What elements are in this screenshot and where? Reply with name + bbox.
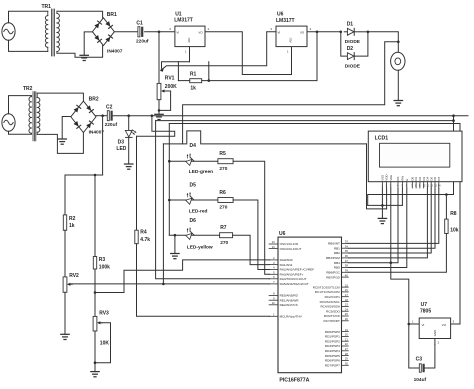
svg-text:LM317T: LM317T [174,18,193,24]
wire D2 branch [341,32,348,56]
resistor R4 body [135,230,138,244]
capacitor C1 [138,27,143,37]
potentiometer RV2 body [63,277,67,292]
svg-text:RV3: RV3 [99,310,109,316]
wire label-hop over D4 [163,131,366,144]
svg-text:RD5/PSP5: RD5/PSP5 [325,354,340,358]
resistor R5 body [218,159,233,164]
wire R7 to RA1 [233,235,270,264]
wire RV3 wiper loop [95,323,111,363]
svg-text:100k: 100k [99,265,110,271]
wire BR2 right to C2 [96,115,107,117]
svg-text:RC0/T1OSO/T1CKI: RC0/T1OSO/T1CKI [313,285,340,289]
junction D1/D2 right [367,31,370,34]
wire VEE node to U7 VI [391,263,409,324]
wire bus H2 [156,120,454,122]
ground (motor) [394,101,402,106]
junction VEE/RS row [390,261,393,264]
wire RS drop [348,188,398,263]
svg-text:OSC2/CLKOUT: OSC2/CLKOUT [280,247,302,251]
LED D6 (yellow) [183,227,196,240]
svg-text:U7: U7 [421,302,428,308]
svg-text:10K: 10K [100,341,110,347]
svg-text:ADJ: ADJ [288,37,292,43]
junction C2/D3 [127,114,130,117]
svg-text:RC6/TX/CK: RC6/TX/CK [324,314,341,318]
wire C2 branch run [137,116,175,137]
regulator U7 box [419,318,450,339]
wire BR1 right corner to C1 [114,31,137,33]
junction red row [168,199,171,202]
svg-text:D5: D5 [190,182,197,188]
svg-text:RD4/PSP4: RD4/PSP4 [325,349,340,353]
svg-text:TR1: TR1 [42,4,52,10]
wire motor rail to LED area [183,42,399,144]
wire y175 rail [65,174,103,176]
wire V2 loop to TR2 [9,96,32,114]
svg-text:RA5/AN4/SS/C2OUT: RA5/AN4/SS/C2OUT [280,282,309,286]
svg-text:RE1/AN6/WR: RE1/AN6/WR [280,298,300,302]
wire U7 GND stub [434,339,436,345]
svg-text:D6: D6 [190,218,197,224]
junction D1/D2 left [340,31,343,34]
wire VSS line left riser [368,195,454,206]
wire R2 line [64,175,66,215]
bridge rectifier BR1 [92,18,114,46]
svg-text:RB1: RB1 [334,246,340,250]
svg-text:GND: GND [433,330,437,336]
svg-text:RW: RW [401,176,405,181]
svg-text:220uf: 220uf [136,38,149,44]
svg-text:ADJ: ADJ [187,37,191,43]
wire U1 VO to U6 ADJ [205,32,292,75]
wire green row [169,160,218,162]
wire C3 to U7 GND [425,345,435,369]
wire R5 to RA3 [233,161,269,274]
junction H2 riser [452,119,455,122]
wire motor to ground [397,70,399,100]
junction motor rail [397,41,400,44]
svg-text:DIODE: DIODE [345,39,361,45]
ground (BR2) [58,139,66,144]
svg-text:104uf: 104uf [414,377,427,383]
wire LED cathode bus [168,124,170,236]
svg-text:RB2: RB2 [334,251,340,255]
svg-text:LED-red: LED-red [189,208,208,214]
svg-text:220uf: 220uf [105,122,118,128]
svg-text:RC4/SDI/SDA: RC4/SDI/SDA [320,305,340,309]
ground (LCD VSS) [378,218,386,223]
svg-text:RV1: RV1 [165,76,175,82]
svg-text:270: 270 [219,205,227,211]
junction RV3 bottom [94,361,97,364]
wire R4 to MCLR [137,244,270,317]
junction +V branch [151,114,154,117]
svg-text:D4: D4 [190,143,197,149]
svg-text:LED: LED [116,146,126,152]
junction green row [168,160,171,163]
wire U6 ADJ pin [291,47,293,75]
svg-text:RD6/PSP6: RD6/PSP6 [325,359,340,363]
svg-text:LCD1: LCD1 [375,136,389,142]
svg-text:1k: 1k [190,86,196,92]
svg-text:C1: C1 [136,20,143,26]
junction RV1 bottom [158,109,161,112]
svg-text:RD0/PSP0: RD0/PSP0 [325,330,340,334]
svg-text:VO: VO [442,323,447,327]
wire +V drop to R8 rail [453,116,455,195]
wire U6 VO to D1/D2 [307,31,341,33]
junction R8 top [445,193,448,196]
RV3 wiper arrow [97,321,103,324]
svg-text:LM317T: LM317T [276,18,295,24]
svg-text:E: E [405,179,409,181]
svg-text:D1: D1 [347,22,354,28]
svg-text:VO: VO [198,31,203,35]
svg-text:RC3/SCK/SCL: RC3/SCK/SCL [320,300,341,304]
svg-text:VI: VI [422,323,425,327]
svg-text:RS: RS [396,177,400,181]
junction U7 VI [408,323,411,326]
wire C1 to U1 VI [145,31,175,33]
wire D4 riser [348,188,427,258]
transformer TR1 [45,9,59,56]
wire U7 VI down to C3 [409,324,419,368]
svg-text:RA1/AN1: RA1/AN1 [280,263,293,267]
wire U7 VI lead [409,323,419,325]
svg-text:RD2/PSP2: RD2/PSP2 [325,339,340,343]
AC source V2 (sine) [2,114,15,132]
junction C1/U1/RV1 [158,31,161,34]
svg-text:RB5: RB5 [334,266,340,270]
wire R3 line top [94,175,96,258]
svg-text:RC1/T1OSI/CCP2: RC1/T1OSI/CCP2 [315,290,340,294]
wire VEE drop [390,188,392,263]
resistor R7 body [220,233,233,238]
svg-text:RD3/PSP3: RD3/PSP3 [325,344,340,348]
wire ADJ tap to R1 left [177,62,179,81]
wire BR2 left corner to ground [62,117,71,140]
resistor R3 body [93,257,96,270]
wire R6 to RA2 [233,200,269,270]
wire R8 top [445,195,447,220]
regulator U6 box [276,26,307,46]
LED D3 [125,130,132,137]
wire divider node to RA0 [95,260,270,293]
svg-text:DIODE: DIODE [345,63,361,69]
wire RA5 riser [162,144,164,284]
junction R3 top [94,174,97,177]
svg-text:MCLR/Vpp/THV: MCLR/Vpp/THV [280,315,303,319]
wire ADJ line right leg to R1 [208,62,210,81]
diode D1 [347,28,354,35]
RV1 wiper arrow [161,89,167,92]
wire RV1 bottom to ground [158,100,160,115]
bridge rectifier BR2 [71,101,96,132]
wire E drop [348,188,407,268]
svg-text:OSC1/CLKIN: OSC1/CLKIN [280,242,298,246]
svg-text:R1: R1 [190,71,197,77]
svg-text:RC7/RX/DT: RC7/RX/DT [324,319,340,323]
svg-text:IN4007: IN4007 [107,49,123,55]
resistor R8 body [445,219,448,233]
svg-text:R6: R6 [219,190,226,196]
junction VSS [381,204,384,207]
AC source V1 (sine) [2,23,15,41]
svg-text:200K: 200K [165,84,177,90]
wire RV1 wiper to U6 VI [162,32,276,69]
svg-text:RE0/AN5/RD: RE0/AN5/RD [280,294,299,298]
wire VDD drop [386,188,388,209]
svg-text:C3: C3 [416,356,423,362]
ground (LEDs) [171,254,179,259]
svg-text:RD7/PSP7: RD7/PSP7 [325,364,340,368]
wire TR2 secondary bottom to BR2 bottom [37,133,83,154]
svg-text:BR1: BR1 [107,12,117,18]
wire bus H3 (+5V from U7) [169,124,460,325]
capacitor C3 [419,364,424,372]
wire R3 to RV3 [94,269,96,316]
svg-text:RD1/PSP1: RD1/PSP1 [325,335,340,339]
wire R2 to RV2 [64,230,66,277]
svg-text:R3: R3 [99,257,106,263]
svg-text:U1: U1 [175,11,182,17]
svg-text:BR2: BR2 [89,97,99,103]
svg-text:VI: VI [278,31,281,35]
wire RV1 wiper loop [159,91,171,110]
wire main +V line to right [113,115,468,117]
junction +V drop [452,114,455,117]
junction R3/RV3 node tap [94,291,97,294]
svg-text:RV2: RV2 [69,273,79,279]
svg-text:10k: 10k [450,227,459,233]
svg-text:270: 270 [220,240,228,246]
svg-text:RA0/AN0: RA0/AN0 [280,258,293,262]
resistor R1 body [190,79,202,83]
RV2 wiper arrow [67,283,73,286]
wire D1 line [344,31,347,33]
wire TR1 secondary top to BR1 [57,11,103,17]
wire D3 cathode to ground [128,137,130,164]
wire D6 riser [348,188,435,248]
wire R1 leads [178,80,189,82]
svg-text:D7: D7 [437,177,441,181]
wire VI junction down to RV1 [158,32,160,84]
svg-text:R4: R4 [140,229,147,235]
junction C2/R2 riser [101,114,104,117]
resistor R6 body [218,198,233,203]
LCD1 screen [380,143,450,167]
wire R1 node to U6 VO riser [209,32,317,81]
svg-text:RA2/AN2/VREF-/CVREF: RA2/AN2/VREF-/CVREF [280,268,314,272]
wire D7 riser [348,188,439,243]
ground (BR1) [80,55,88,60]
svg-text:RB3/PGM: RB3/PGM [326,256,340,260]
svg-text:PIC16F877A: PIC16F877A [279,377,309,383]
ground (RV1) [155,114,163,119]
svg-text:D2: D2 [347,46,354,52]
svg-text:VI: VI [176,31,179,35]
wire yellow row [169,234,219,236]
svg-text:270: 270 [219,166,227,172]
potentiometer RV3 body [93,316,97,331]
wire red row [169,199,218,201]
svg-text:RB4: RB4 [334,261,340,265]
microcontroller U6 PIC16F877A [278,237,342,373]
potentiometer RV1 body [157,83,161,99]
svg-text:RA4/T0CKI/C1OUT: RA4/T0CKI/C1OUT [280,277,307,281]
wire RV2 bottom to ground [64,292,66,334]
svg-text:R7: R7 [220,225,227,231]
wire D3 anode [128,116,130,131]
wire BR1 left corner to ground [84,32,92,55]
junction yellow gnd tap [174,234,177,237]
svg-text:4.7k: 4.7k [140,237,150,243]
ground (RV3) [91,372,99,377]
wire VSS node line [368,204,403,206]
svg-text:VEE: VEE [389,175,393,181]
capacitor C2 [107,111,112,121]
svg-text:IN4007: IN4007 [89,129,105,135]
junction RA5 riser/RV2 wiper [162,283,165,286]
motor M1 [391,52,405,70]
wire D5 riser [348,188,431,253]
transformer TR2 [29,92,40,141]
wire R2 riser [65,116,103,175]
wire RW drop [401,188,403,205]
wire RV3 bottom [94,331,96,372]
svg-text:R5: R5 [219,151,226,157]
svg-text:D3: D3 [118,139,125,145]
svg-text:R8: R8 [450,211,457,217]
svg-text:U6: U6 [279,231,286,237]
svg-text:RB0/INT: RB0/INT [328,242,340,246]
wire yellow tap to ground [174,235,176,253]
svg-text:LED-yellow: LED-yellow [187,244,213,250]
wire VDD feed drop [367,144,387,209]
wire LCD VSS to ground [381,188,383,218]
svg-text:C2: C2 [106,105,113,111]
svg-text:RA3/AN3/VREF+: RA3/AN3/VREF+ [280,273,304,277]
wire U1 ADJ line [162,62,190,68]
regulator U1 box [175,26,205,46]
wire R8 bottom to RB6 [348,234,446,273]
svg-text:RE2/AN7/CS: RE2/AN7/CS [280,303,298,307]
wire TR2 secondary top to BR2 [37,93,83,101]
wire TR1 secondary bottom to BR1 bottom [57,46,103,58]
svg-text:7805: 7805 [420,309,431,315]
svg-text:U6: U6 [277,12,284,18]
ground (D3) [125,164,133,169]
junction R1 right [208,79,211,82]
junction U6 VO / R1 riser [316,31,319,34]
arrow ADJ to RV1 [160,67,164,71]
svg-text:R2: R2 [69,216,76,222]
ground (RV2) [61,334,69,339]
wire R4 top [136,136,138,230]
svg-text:LED-green: LED-green [189,169,213,175]
wire H2 left drop to RA4 [156,121,270,279]
svg-text:RB7/PGD: RB7/PGD [326,275,340,279]
diode D2 [347,53,354,60]
svg-text:RC5/SDO: RC5/SDO [326,309,340,313]
resistor R2 body [63,215,66,230]
LCD1 outer box [368,131,462,182]
LED D4 (green) [183,153,196,166]
svg-text:TR2: TR2 [23,86,33,92]
svg-text:1k: 1k [69,223,75,229]
LED D5 (red) [183,192,196,205]
wire V1 loop to TR1 primary [9,11,48,22]
wire D2 node to motor [368,32,398,53]
wire RV2 wiper to RA5 [71,283,270,285]
svg-text:RB6/PGC: RB6/PGC [326,271,340,275]
svg-text:RC2/CCP1: RC2/CCP1 [325,295,341,299]
